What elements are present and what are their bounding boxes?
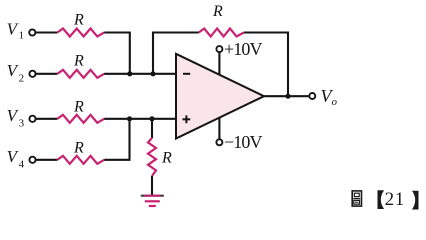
svg-text:R: R	[212, 3, 223, 20]
junction dot ground-resistor tap	[149, 116, 154, 121]
op-amp U1	[176, 54, 264, 139]
wire resistor to ground	[151, 176, 153, 196]
node +10V terminal	[216, 46, 222, 52]
resistor R (to ground)	[148, 138, 156, 176]
label R (feedback)	[212, 3, 223, 20]
node V4 terminal	[29, 157, 35, 163]
wire positive supply	[218, 52, 220, 75]
caption number 21	[385, 189, 405, 210]
label R (V1 input)	[73, 12, 84, 29]
label R (V3 input)	[73, 98, 84, 115]
wire V1 R to corner and down to inverting node	[104, 33, 130, 74]
resistor R (V3 input)	[57, 115, 104, 123]
label -10V	[224, 132, 262, 152]
resistor R (feedback)	[199, 29, 244, 37]
junction dot V1/V2	[127, 71, 132, 76]
label Vo	[321, 86, 338, 108]
svg-text:R: R	[73, 53, 84, 70]
wire V2 R to inverting input of op-amp	[104, 73, 176, 75]
wire V3 terminal to R	[36, 118, 58, 120]
op-amp non-inverting input sign	[183, 115, 191, 123]
ground	[141, 196, 164, 206]
caption figure 21: character tu (picture)	[352, 191, 361, 206]
node V1 terminal	[29, 29, 35, 35]
resistor R (V4 input)	[57, 156, 104, 164]
wire V4 terminal to R	[36, 159, 58, 161]
svg-text:o: o	[332, 96, 338, 108]
svg-text:3: 3	[19, 117, 25, 129]
svg-text:R: R	[73, 139, 84, 156]
wire ground-resistor lead	[151, 119, 153, 138]
svg-text:2: 2	[19, 72, 25, 84]
svg-text:−10V: −10V	[224, 132, 262, 152]
wire feedback riser from inverting node	[153, 33, 199, 74]
svg-text:+10V: +10V	[224, 39, 262, 59]
resistor R (V1 input)	[57, 29, 104, 37]
node V2 terminal	[29, 71, 35, 77]
wire V3 R to non-inverting input of op-amp	[104, 118, 176, 120]
caption closing bracket	[412, 191, 419, 210]
svg-text:4: 4	[19, 158, 25, 170]
node Vo terminal	[309, 93, 315, 99]
label V3	[7, 106, 25, 130]
svg-text:1: 1	[19, 30, 25, 42]
node V3 terminal	[29, 116, 35, 122]
node -10V terminal	[216, 139, 222, 145]
label R (ground resistor)	[161, 150, 172, 167]
label V2	[7, 61, 25, 85]
label R (V2 input)	[73, 53, 84, 70]
svg-text:21: 21	[385, 189, 405, 210]
label V1	[7, 20, 25, 42]
junction dot V3/V4	[127, 116, 132, 121]
label R (V4 input)	[73, 139, 84, 156]
caption opening bracket	[378, 190, 385, 209]
junction dot output/feedback	[285, 94, 290, 99]
resistor R (V2 input)	[57, 70, 104, 78]
svg-text:R: R	[73, 12, 84, 29]
label V4	[7, 147, 25, 171]
svg-text:R: R	[73, 98, 84, 115]
wire negative supply	[218, 117, 220, 139]
wire op-amp output	[264, 95, 309, 97]
op-amp inverting input sign	[183, 73, 190, 75]
label +10V	[224, 39, 262, 59]
wire feedback R to output node	[244, 33, 288, 97]
wire V1 terminal to R	[35, 31, 57, 33]
svg-text:R: R	[161, 150, 172, 167]
wire V2 terminal to R	[36, 73, 58, 75]
wire V4 R to corner and up to non-inverting node	[104, 119, 129, 160]
junction dot feedback tap on inverting line	[150, 71, 155, 76]
